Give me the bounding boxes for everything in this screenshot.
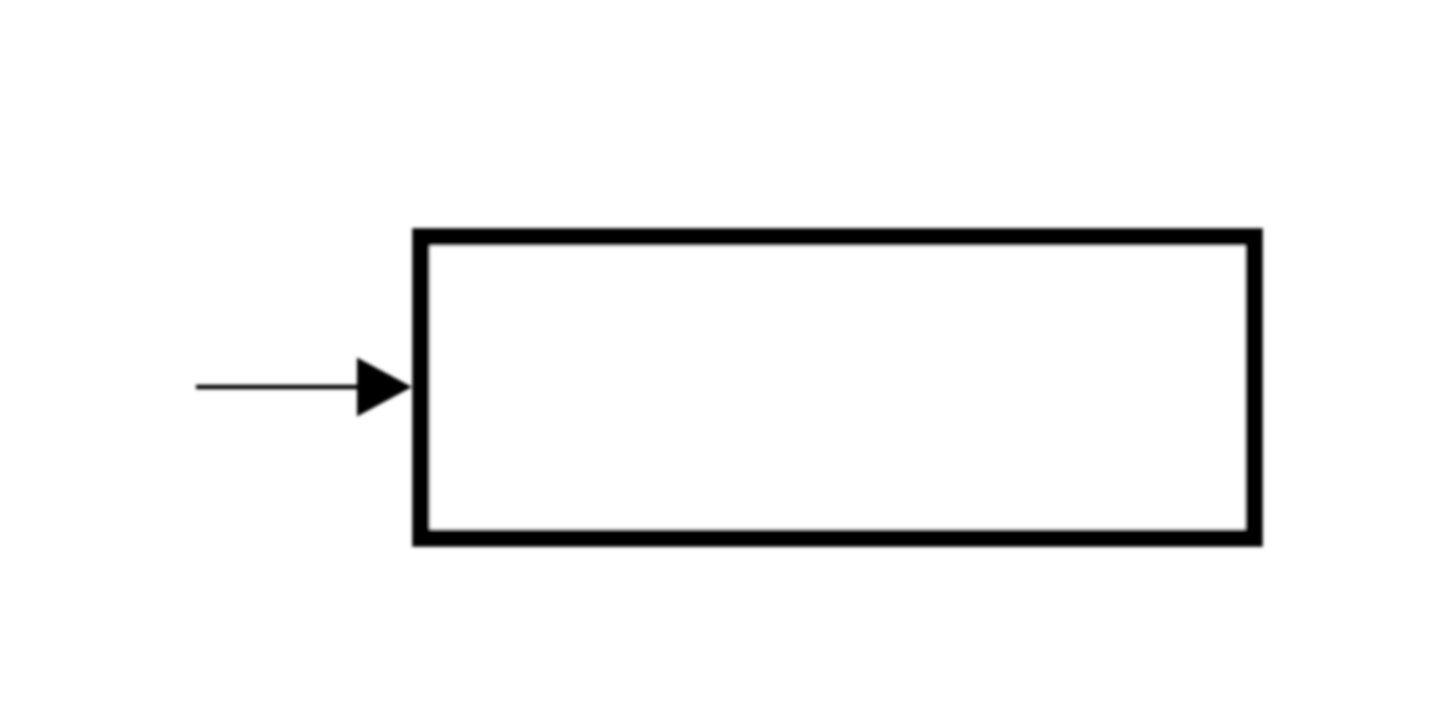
- wire: [196, 385, 362, 390]
- arrowhead: [357, 358, 412, 417]
- process box: [421, 237, 1254, 538]
